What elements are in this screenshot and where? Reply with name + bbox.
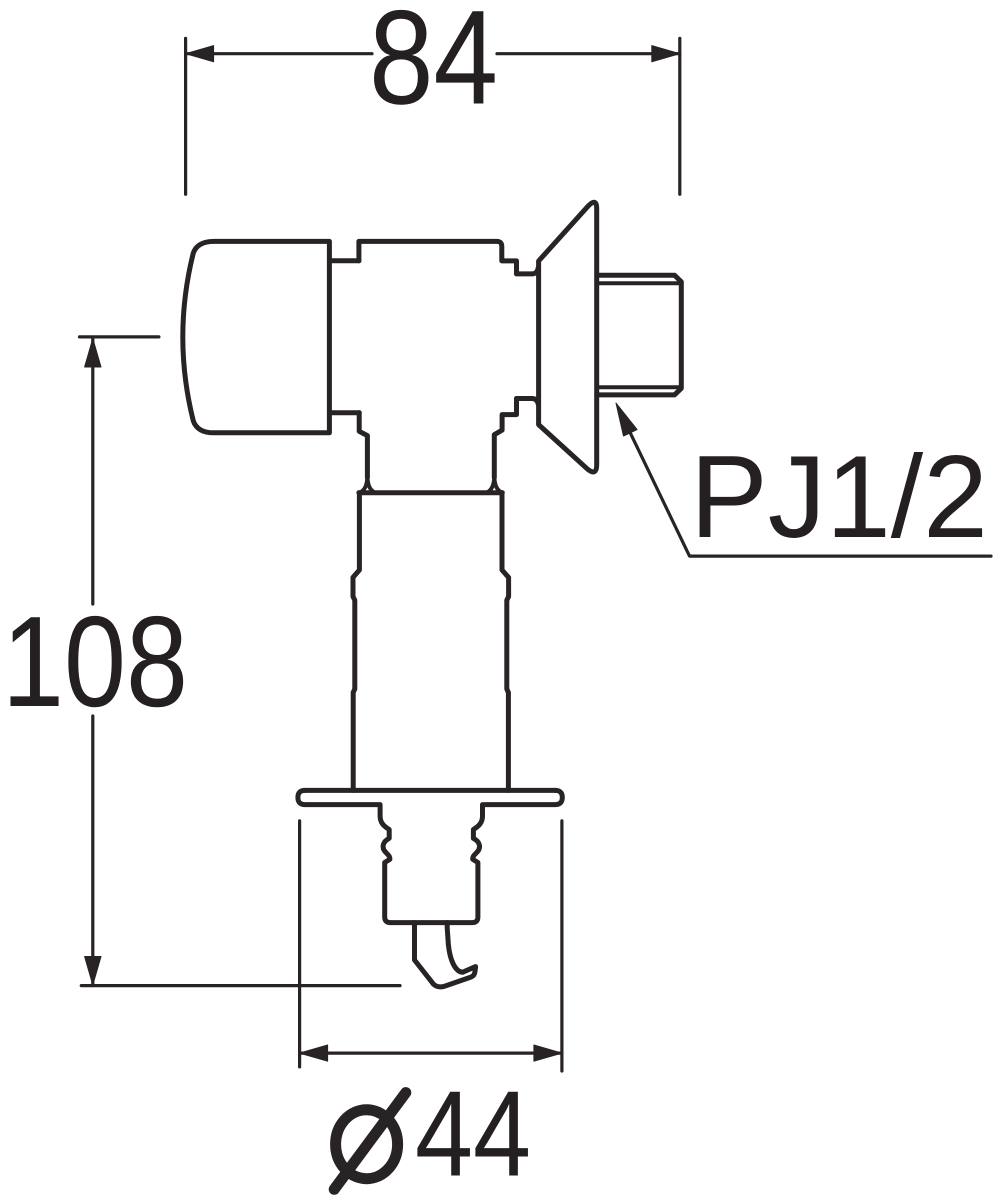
leader line PJ1/2 <box>620 412 991 557</box>
outlet boot spout <box>415 923 476 987</box>
dim phi44 right extension line <box>560 821 563 1071</box>
svg-text:PJ1/2: PJ1/2 <box>690 431 988 562</box>
neck-to-pipe flare right <box>487 475 502 493</box>
lower stem with grooves and bottom cylinder <box>380 805 482 923</box>
dim 108 bottom reference line <box>81 984 400 987</box>
knob neck top edge <box>329 258 359 263</box>
svg-text:108: 108 <box>2 590 188 734</box>
dim phi44 right arrowhead <box>534 1045 562 1061</box>
escutcheon plate right end <box>485 790 563 804</box>
dim 108 top tick <box>80 335 159 338</box>
svg-text:84: 84 <box>369 0 498 133</box>
escutcheon plate top edge <box>305 788 555 793</box>
riser pipe right profile <box>502 493 509 791</box>
phi symbol <box>336 1110 398 1179</box>
leader arrowhead <box>616 403 637 436</box>
handle knob <box>183 241 330 432</box>
threaded pipe end inner lines <box>598 283 680 387</box>
valve body right lower outline <box>494 399 516 478</box>
svg-text:44: 44 <box>415 1066 531 1200</box>
neck-to-pipe flare left <box>360 475 375 493</box>
riser pipe shoulder top edge <box>359 490 502 495</box>
knob neck bottom edge <box>329 410 359 415</box>
dim 84 left extension line <box>184 38 187 194</box>
phi slash <box>334 1093 406 1190</box>
dim phi44 left arrowhead <box>300 1045 328 1061</box>
flange neck top edge <box>517 268 539 274</box>
dim 108 top arrowhead <box>85 339 101 368</box>
riser pipe left profile <box>353 493 359 791</box>
dim 84 left arrowhead <box>186 46 214 62</box>
dim phi44 line <box>300 1051 562 1054</box>
dim 108 bottom arrowhead <box>85 957 101 986</box>
dim phi44 left extension line <box>298 821 301 1067</box>
threaded pipe end PJ1/2 outer <box>598 275 681 395</box>
flange neck bottom edge <box>517 399 539 405</box>
dim 108 line <box>91 339 94 986</box>
dim 84 right extension line <box>678 38 681 194</box>
escutcheon plate left end <box>298 790 379 804</box>
dim 84 right arrowhead <box>652 46 680 62</box>
valve body left lower outline <box>359 413 367 478</box>
valve body top outline <box>359 241 517 274</box>
wall flange cone <box>539 202 597 472</box>
dim 84 line <box>186 52 680 55</box>
